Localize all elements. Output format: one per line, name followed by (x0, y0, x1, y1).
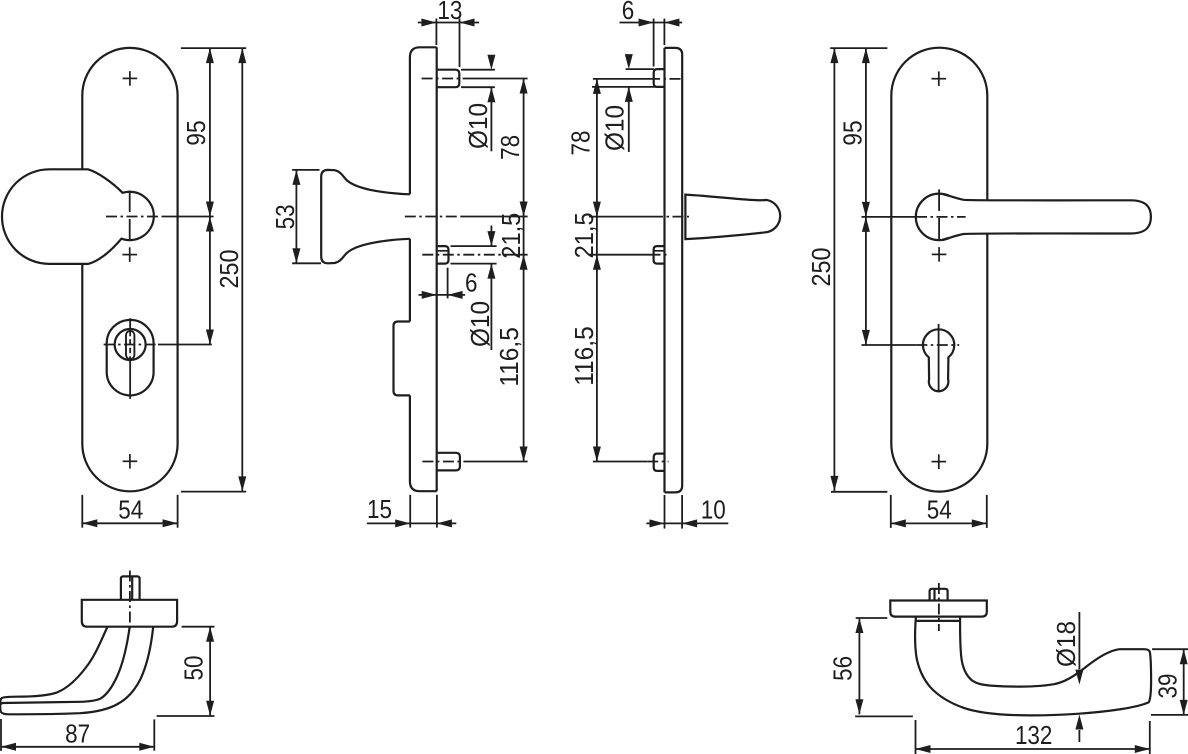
svg-text:250: 250 (806, 248, 836, 287)
svg-text:95: 95 (838, 120, 868, 145)
svg-text:10: 10 (701, 495, 726, 525)
svg-text:250: 250 (214, 250, 244, 289)
svg-text:39: 39 (1152, 674, 1182, 699)
svg-text:21,5: 21,5 (496, 213, 526, 259)
svg-text:Ø18: Ø18 (1051, 621, 1081, 667)
svg-text:6: 6 (622, 0, 635, 25)
svg-text:15: 15 (367, 494, 392, 524)
svg-text:Ø10: Ø10 (465, 301, 495, 347)
svg-text:Ø10: Ø10 (463, 103, 493, 149)
svg-text:56: 56 (827, 656, 857, 681)
svg-text:132: 132 (1015, 720, 1053, 750)
svg-text:21,5: 21,5 (569, 212, 599, 258)
svg-text:Ø10: Ø10 (600, 105, 630, 151)
svg-text:54: 54 (118, 495, 143, 525)
svg-text:116,5: 116,5 (494, 327, 524, 387)
svg-text:50: 50 (178, 656, 208, 681)
svg-text:13: 13 (437, 0, 462, 25)
svg-text:53: 53 (270, 204, 300, 229)
svg-text:6: 6 (465, 268, 478, 298)
svg-text:87: 87 (65, 718, 90, 748)
svg-text:54: 54 (927, 495, 952, 525)
svg-text:78: 78 (495, 135, 525, 160)
svg-text:116,5: 116,5 (569, 326, 599, 386)
svg-text:95: 95 (181, 120, 211, 145)
svg-text:78: 78 (565, 131, 595, 156)
